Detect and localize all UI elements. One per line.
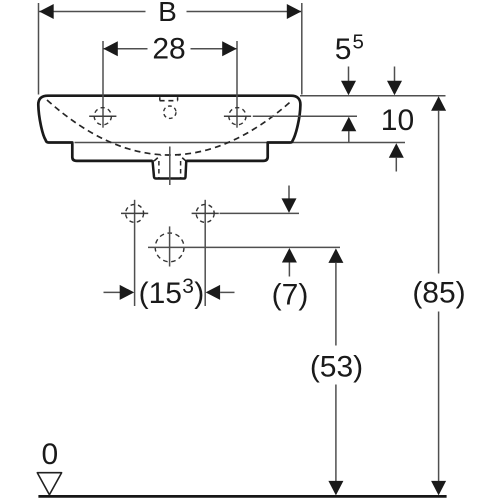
fixing hole left dashed circle [126,204,144,222]
dimension B text halo [146,0,187,22]
middle knockout tick right [177,97,179,100]
dimension B extension line left [38,3,40,95]
dimension B line [39,11,302,13]
fixing hole right dashed circle [196,204,214,222]
svg-text:(85): (85) [412,277,465,310]
dimension 15.3 right arrow [206,285,221,300]
drain cup [153,160,187,178]
svg-text:(53): (53) [310,351,363,384]
dimension 53 top arrow [328,248,343,263]
dimension 5.5 arrow 2 [387,81,402,96]
dimension B arrow right [287,4,302,19]
dimension 7 top arrow [282,198,297,213]
drain transition dash left [154,155,161,161]
svg-text:28: 28 [152,33,185,66]
drain wall outlet dashed circle [155,233,184,262]
dimension 28 line [103,48,237,50]
dimension 5.5 stem 2 [394,67,396,83]
washbasin outline [38,96,300,161]
dimension 28 extension right [236,41,238,128]
svg-text:0: 0 [41,438,58,471]
dimension B arrow left [39,4,54,19]
dimension 85 line lower [438,312,440,482]
drain centerline [169,147,171,186]
svg-text:B: B [158,0,177,27]
dimension 15.3 left stem [104,291,121,293]
dimension B extension line right [301,3,303,95]
svg-text:3: 3 [182,275,194,298]
dimension 15.3 left arrow [120,285,135,300]
fixing hole reference line L4 [220,212,300,214]
tap hole line L2 right cross arm [224,115,251,117]
fixing hole right vertical [204,200,206,306]
tap hole reference line extension [253,115,357,117]
drain transition dash right [179,155,186,161]
dimension 28 text halo [148,36,191,61]
svg-text:): ) [194,277,204,310]
drain reference line L5 [148,246,340,248]
dimension 53 line upper [335,263,337,346]
dimension 10 lower arrow [389,143,404,158]
svg-text:5: 5 [353,31,364,54]
dimension 10 upper stem [348,131,350,143]
svg-text:10: 10 [381,104,414,137]
drain cup inner dashed pipe [158,161,160,178]
dimension 53 line lower [335,385,337,482]
svg-text:5: 5 [335,33,352,66]
ground line [38,495,446,498]
dimension 10 lower stem [395,158,397,172]
zero level triangle [37,473,61,495]
dimension 5.5 stem 1 [348,67,350,83]
dimension 53 bottom arrow [328,481,343,496]
fixing hole left cross arm [121,212,148,214]
dimension 7 bottom stem [288,263,290,277]
dimension 85 top arrow [431,96,446,111]
dimension 7 top stem [288,186,290,200]
rim reference line L1 [300,95,446,97]
middle knockout dashed circle [164,106,176,118]
tap hole line L2 left cross arm [89,115,116,117]
dimension 28 arrow right [222,41,237,56]
fixing hole left vertical [134,200,136,306]
dimension 28 arrow left [103,41,118,56]
bowl dashed arc [47,100,293,155]
dimension 85 line upper [438,111,440,274]
middle knockout tick left [159,97,161,100]
tap hole right dashed circle [229,108,246,125]
svg-text:(7): (7) [272,279,309,312]
middle knockout dashed line [160,100,178,102]
fixing hole right cross arm [192,212,219,214]
drain wall outlet vertical arm [169,226,171,266]
dimension 10 upper arrow [341,117,356,132]
tap hole left dashed circle [94,108,111,125]
thin reference line L3 basin bottom edge extended [75,142,406,144]
dimension 5.5 arrow 1 [341,81,356,96]
dimension 28 extension left [102,41,104,128]
svg-text:(15: (15 [139,277,182,310]
dimension 85 bottom arrow [431,481,446,496]
dimension 15.3 right stem [220,291,234,293]
dimension 7 bottom arrow [282,248,297,263]
